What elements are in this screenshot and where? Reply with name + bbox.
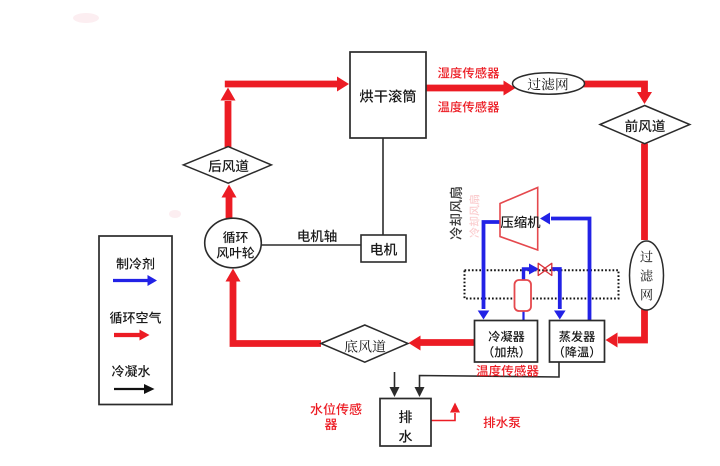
- drain pump label 排水泵: [484, 416, 521, 428]
- impeller circle 循环风叶轮: [205, 218, 262, 268]
- wire black: water-level arrow into sink box: [394, 372, 396, 387]
- cooling fan label 冷却风扇 (rotated): [450, 187, 463, 239]
- wire black: evaporator drain to sink box: [420, 362, 560, 387]
- wire red thin: sink box to drain pump: [431, 413, 455, 421]
- capillary / filter-drier (red rounded box): [515, 280, 532, 311]
- wire blue: compressor to condenser: [484, 222, 501, 309]
- motor box 电机: [361, 235, 406, 262]
- watermark smudge top-left: [73, 13, 99, 23]
- filter ellipse 过滤网 (top): [513, 73, 585, 95]
- wire black: drum to motor (vertical): [382, 138, 384, 235]
- wire red: bottom duct to impeller: [233, 281, 321, 344]
- legend blue arrow (refrigerant): [113, 279, 148, 282]
- wire blue thin: condenser to capillary: [522, 310, 524, 320]
- cooling fan ghost watermark: [469, 195, 479, 238]
- legend label 制冷剂: [116, 257, 154, 269]
- filter ellipse 过滤网 (right): [630, 241, 664, 310]
- wire red: right filter to evaporator: [618, 309, 645, 340]
- front duct diamond 前风道: [600, 106, 690, 144]
- wire blue: valve to evaporator: [551, 269, 560, 309]
- wire red: front duct to right filter: [641, 144, 648, 241]
- wire red: impeller to rear duct: [226, 197, 233, 219]
- wire red: condenser to bottom duct: [420, 339, 475, 346]
- legend box: [99, 236, 172, 405]
- watermark smudge mid-left: [169, 210, 181, 218]
- evaporator box 蒸发器(降温): [550, 321, 605, 363]
- bottom duct diamond 底风道: [321, 325, 408, 362]
- wire black: impeller to motor (shaft): [261, 244, 361, 246]
- wire blue: evaporator to compressor: [551, 219, 590, 321]
- compressor 压缩机: [500, 188, 538, 251]
- wire blue thin: capillary to valve: [524, 269, 530, 281]
- motor shaft label 电机轴: [298, 230, 336, 243]
- expansion valve (red bowtie): [538, 263, 547, 275]
- legend label 循环空气: [110, 311, 161, 323]
- legend red arrow (circulating air): [114, 333, 140, 337]
- sensor label 温度传感器: [438, 101, 499, 113]
- drum box 烘干滚筒: [350, 52, 426, 138]
- wire red: rear duct up to corner: [225, 101, 232, 147]
- sensor label 温度传感器 (bottom): [476, 365, 538, 377]
- heat-exchanger dotted enclosure: [465, 270, 619, 298]
- sensor label 湿度传感器: [438, 67, 499, 79]
- condenser box 冷凝器(加热): [475, 321, 538, 363]
- wire red: corner to drum: [225, 81, 337, 88]
- rear duct diamond 后风道: [183, 147, 271, 184]
- wire red: drum to top filter: [426, 85, 504, 92]
- sink box 排水: [380, 399, 431, 447]
- water level sensor label 水位传感器: [310, 403, 361, 415]
- wire red: top filter to front duct: [583, 84, 645, 92]
- legend label 冷凝水: [112, 365, 150, 377]
- legend black arrow (condensed water): [114, 388, 144, 390]
